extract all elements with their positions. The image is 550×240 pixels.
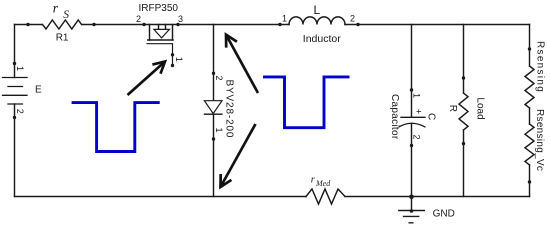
node battery pin1 dot (13, 62, 16, 65)
node load pin dot lower (462, 142, 465, 145)
svg-text:1: 1 (214, 128, 224, 133)
ground stub (411, 197, 413, 211)
svg-text:2: 2 (136, 14, 141, 24)
svg-text:E: E (35, 85, 42, 96)
svg-text:R: R (447, 105, 458, 112)
svg-text:R1: R1 (56, 33, 69, 44)
node Q1 pin3 dot (176, 23, 179, 26)
wire between Rsensing and Rsensing_Vc (529, 108, 531, 124)
wire R1 to MOSFET and to inductor (82, 24, 289, 26)
node ground symbol dot (410, 209, 414, 213)
svg-text:1: 1 (174, 57, 184, 62)
transistor Q1 gate plate and lead (147, 44, 172, 66)
node load pin dot upper (462, 76, 465, 79)
resistor Rsensing_Vc (525, 124, 534, 165)
transistor Q1 IRFP350 body (150, 25, 173, 41)
svg-text:3: 3 (178, 14, 183, 24)
wire right edge upper (529, 25, 531, 67)
battery E plates (3, 78, 28, 105)
node capacitor pin1 dot (410, 88, 413, 91)
wire right edge lower (529, 165, 531, 197)
svg-text:1: 1 (15, 66, 25, 71)
arrow to MOSFET gate (128, 62, 166, 96)
svg-text:GND: GND (433, 209, 455, 220)
node diode pin2 dot (212, 72, 215, 75)
wire capacitor branch lower (411, 123, 413, 196)
wire load branch upper (463, 25, 465, 94)
node Rsensing pin dot (528, 47, 531, 50)
svg-text:Capacitor: Capacitor (389, 94, 400, 140)
capacitor C plates (401, 116, 425, 118)
svg-text:S: S (63, 9, 69, 21)
node L pin2 dot (356, 23, 359, 26)
arrow to diode top (226, 35, 258, 93)
node Q1 pin2 dot (142, 23, 145, 26)
wire left edge lower (14, 104, 16, 197)
svg-text:2: 2 (214, 76, 224, 81)
svg-text:Load: Load (474, 97, 485, 119)
svg-text:Rsensing: Rsensing (535, 41, 546, 93)
resistor rMed (306, 189, 345, 204)
node diode pin1 dot (212, 137, 215, 140)
node ground junction dot (409, 195, 414, 200)
node Q1 gate dot upper (171, 53, 174, 56)
arrow to diode bottom (221, 124, 256, 187)
resistor Rsensing (525, 66, 534, 108)
wire diode branch upper (213, 25, 215, 101)
svg-text:2: 2 (15, 109, 25, 114)
svg-text:1: 1 (282, 14, 287, 24)
node R1 pin1 dot (26, 23, 29, 26)
svg-text:Rsensing_Vc: Rsensing_Vc (534, 109, 545, 171)
node battery pin2 dot (13, 116, 16, 119)
waveform pulse middle (blue) (263, 77, 350, 128)
svg-text:r: r (53, 1, 59, 16)
wire load branch lower (463, 130, 465, 197)
ground bars (399, 211, 425, 223)
svg-text:2: 2 (350, 14, 355, 24)
diode BYV28-200 (204, 101, 222, 114)
node L pin1 dot (278, 23, 281, 26)
svg-text:Med: Med (315, 179, 331, 188)
wire capacitor branch upper (411, 25, 413, 118)
svg-text:L: L (314, 3, 321, 17)
svg-text:Inductor: Inductor (303, 33, 341, 45)
node Q1 gate dot lower (171, 64, 174, 67)
resistor R1 (43, 20, 82, 29)
svg-text:C: C (426, 113, 437, 120)
inductor L coil (289, 17, 345, 25)
wire left edge upper (14, 25, 16, 78)
node Rsensing_Vc pin dot (528, 180, 531, 183)
svg-text:BYV28-200: BYV28-200 (224, 80, 235, 139)
node R1 pin2 dot (92, 23, 95, 26)
resistor R Load (459, 93, 468, 130)
waveform pulse left (blue) (72, 103, 160, 152)
svg-text:IRFP350: IRFP350 (139, 3, 179, 14)
svg-text:1: 1 (412, 93, 422, 98)
svg-text:+: + (413, 109, 423, 114)
wire inductor to top-right corner (345, 24, 530, 26)
wire diode branch lower (213, 114, 215, 196)
wire bottom-right segment (345, 196, 530, 198)
wire top-left segment (15, 24, 43, 26)
wire bottom-left segment (15, 196, 307, 198)
node capacitor pin2 dot (410, 144, 413, 147)
svg-text:2: 2 (412, 135, 422, 140)
